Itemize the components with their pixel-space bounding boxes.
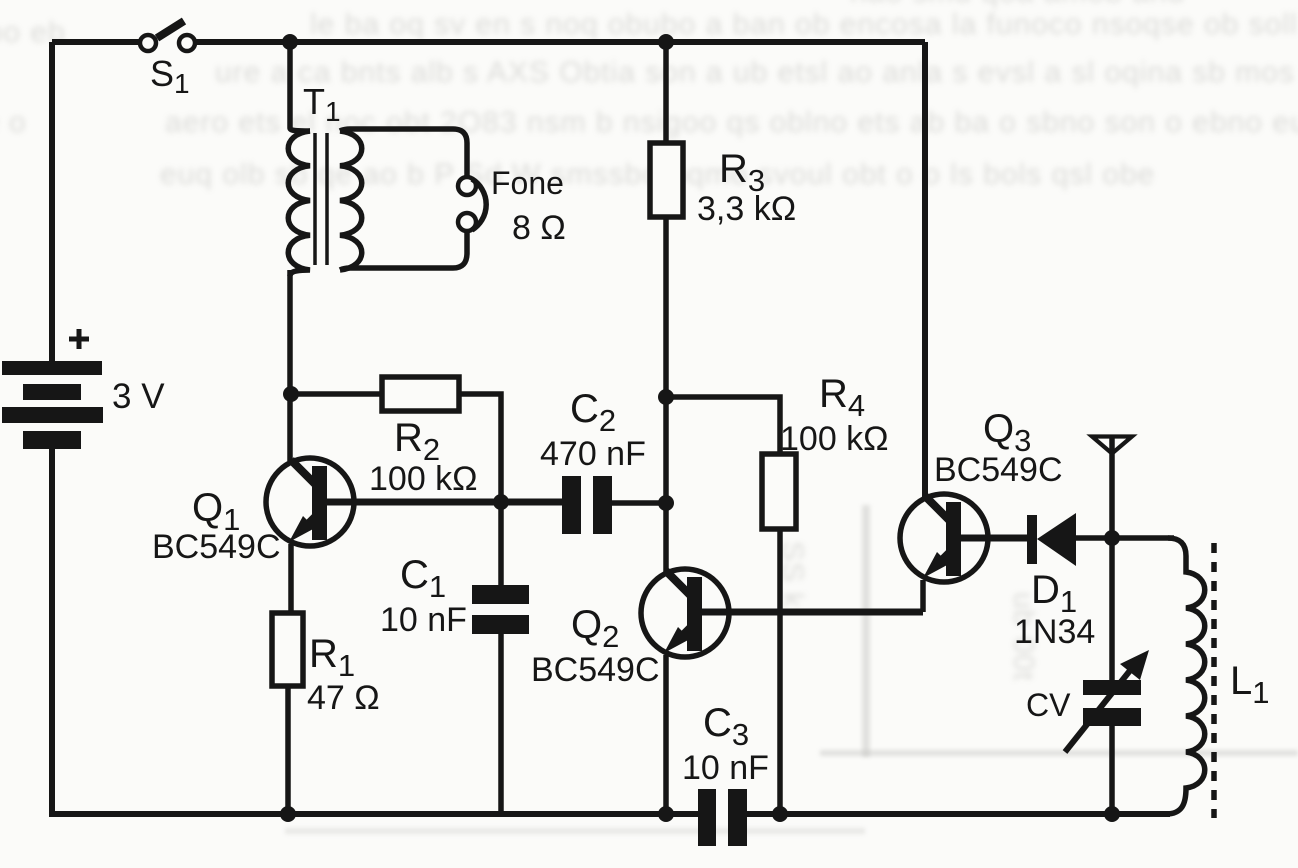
svg-text:T1: T1 xyxy=(303,81,341,127)
node junction top at T1 xyxy=(282,34,298,50)
node junction Q1 base / C1 / R2 xyxy=(493,494,509,510)
svg-text:8 Ω: 8 Ω xyxy=(512,209,566,247)
wire left rail lower xyxy=(49,449,55,816)
transformer T1 primary winding xyxy=(288,131,310,276)
bleed-through faint text block right of CV xyxy=(1006,592,1040,681)
svg-text:C2: C2 xyxy=(570,387,616,438)
node junction R4 branch xyxy=(658,389,674,405)
node junction R1 ground xyxy=(280,806,296,822)
wire R3 bottom to Q2 collector xyxy=(663,217,669,576)
wire secondary top to earphone xyxy=(340,129,467,177)
wire R4 top lead xyxy=(666,397,780,454)
bleed-through text row 3 xyxy=(165,106,1298,140)
node junction CV ground xyxy=(1104,806,1120,822)
resistor R3 xyxy=(650,143,683,217)
transistor Q1 xyxy=(266,458,562,546)
bleed-through faint text block left of R4 bottom xyxy=(775,541,809,608)
svg-text:BC549C: BC549C xyxy=(531,651,660,689)
wire R1 bottom lead xyxy=(285,686,291,813)
wire C1 top lead xyxy=(498,476,504,585)
wire R4 bottom lead xyxy=(777,529,783,813)
bleed-through text left margin 1 xyxy=(0,16,66,50)
antenna ANT1 xyxy=(1092,436,1132,538)
svg-text:R1: R1 xyxy=(309,632,355,683)
bleed-through text row 4 xyxy=(160,158,1155,192)
bleed-through text left margin 2 xyxy=(0,106,27,140)
svg-text:3 V: 3 V xyxy=(112,377,165,416)
wire C1 bottom lead xyxy=(498,634,504,813)
transformer T1 secondary winding xyxy=(340,131,362,270)
svg-text:R4: R4 xyxy=(819,372,865,423)
capacitor C2 xyxy=(562,476,612,534)
svg-text:470 nF: 470 nF xyxy=(540,435,646,473)
earphone Fone terminal top xyxy=(458,177,476,195)
node junction C2 right xyxy=(658,495,674,511)
wire R2 right lead xyxy=(459,394,501,476)
earphone Fone terminal bottom xyxy=(458,213,476,231)
wire bottom rail right segment xyxy=(746,811,1170,817)
svg-text:1N34: 1N34 xyxy=(1014,613,1095,651)
svg-text:100 kΩ: 100 kΩ xyxy=(780,420,889,458)
svg-text:CV: CV xyxy=(1026,687,1071,723)
svg-text:L1: L1 xyxy=(1230,659,1270,710)
svg-text:3,3 kΩ: 3,3 kΩ xyxy=(697,190,796,228)
transformer T1 core xyxy=(315,133,327,265)
resistor R4 xyxy=(762,454,796,529)
wire T1 primary top lead xyxy=(290,42,310,131)
wire Q3 emitter down to base wire xyxy=(920,580,926,612)
capacitor C3 xyxy=(698,789,747,846)
capacitor C1 xyxy=(472,585,529,634)
wire R2 left lead xyxy=(291,391,382,397)
wire right rail down to Q3 collector xyxy=(922,42,928,500)
L1 core dashed line xyxy=(1211,543,1217,818)
svg-text:Q2: Q2 xyxy=(571,603,619,654)
battery B1 3V xyxy=(2,361,103,449)
wire C2 right lead xyxy=(612,500,666,506)
earphone Fone arc xyxy=(472,179,486,230)
wire R3 top lead xyxy=(663,42,669,143)
bleed-through faint band under bottom rail xyxy=(285,828,865,834)
node junction antenna tank xyxy=(1104,530,1120,546)
svg-text:BC549C: BC549C xyxy=(934,451,1063,489)
wire D1 to tank node xyxy=(1076,535,1174,541)
svg-text:Fone: Fone xyxy=(491,165,564,201)
transistor Q3 xyxy=(900,494,1027,582)
svg-text:BC549C: BC549C xyxy=(152,528,281,566)
wire T1 primary bottom to Q1 collector xyxy=(287,270,293,461)
wire bottom rail left segment xyxy=(49,811,698,817)
wire Q1 emitter to R1 xyxy=(288,544,294,613)
svg-text:C1: C1 xyxy=(400,553,446,604)
svg-text:47 Ω: 47 Ω xyxy=(307,679,380,717)
wire left rail upper xyxy=(49,42,55,361)
wire top rail middle segment S1 to right corner xyxy=(196,39,925,45)
wire top rail left segment xyxy=(52,39,139,45)
bleed-through faint horizontal band lower right xyxy=(820,750,1298,756)
variable capacitor CV xyxy=(1065,538,1149,816)
svg-text:D1: D1 xyxy=(1031,568,1077,619)
node junction top at R3 xyxy=(658,34,674,50)
coil L1 xyxy=(1166,538,1205,814)
wire secondary bottom to earphone xyxy=(340,231,467,270)
node junction Q2 emitter ground xyxy=(658,806,674,822)
transistor Q2 xyxy=(641,569,923,657)
switch S1 xyxy=(140,21,195,51)
bleed-through text row 0 clipped xyxy=(850,0,1185,10)
wire Q2 emitter to ground xyxy=(663,655,669,816)
resistor R2 xyxy=(382,377,459,411)
svg-text:10 nF: 10 nF xyxy=(682,749,769,787)
svg-text:100 kΩ: 100 kΩ xyxy=(369,460,478,498)
bleed-through text row 1 xyxy=(310,8,1298,42)
bleed-through text row 2 xyxy=(215,56,1298,90)
battery plus sign xyxy=(69,329,89,349)
svg-text:S1: S1 xyxy=(150,53,190,99)
bleed-through faint vertical line near Q3 xyxy=(862,505,870,757)
svg-text:C3: C3 xyxy=(703,701,749,752)
node junction R4 ground xyxy=(772,806,788,822)
svg-text:10 nF: 10 nF xyxy=(380,601,467,639)
resistor R1 xyxy=(272,613,303,686)
node junction R2 left xyxy=(283,386,299,402)
diode D1 xyxy=(1027,513,1076,566)
